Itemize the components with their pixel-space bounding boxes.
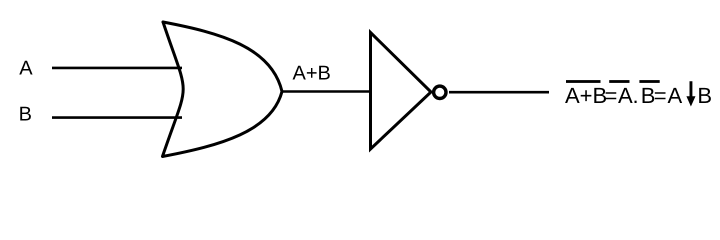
svg-text:A: A [19,57,33,79]
svg-text:A: A [668,83,683,108]
svg-text:B: B [19,104,32,126]
svg-text:=: = [604,83,617,108]
svg-text:A+B: A+B [565,83,607,108]
svg-text:A: A [618,83,633,108]
svg-text:B: B [697,83,712,108]
svg-text:A+B: A+B [293,62,331,84]
svg-text:.: . [632,83,638,108]
svg-text:=: = [654,83,667,108]
